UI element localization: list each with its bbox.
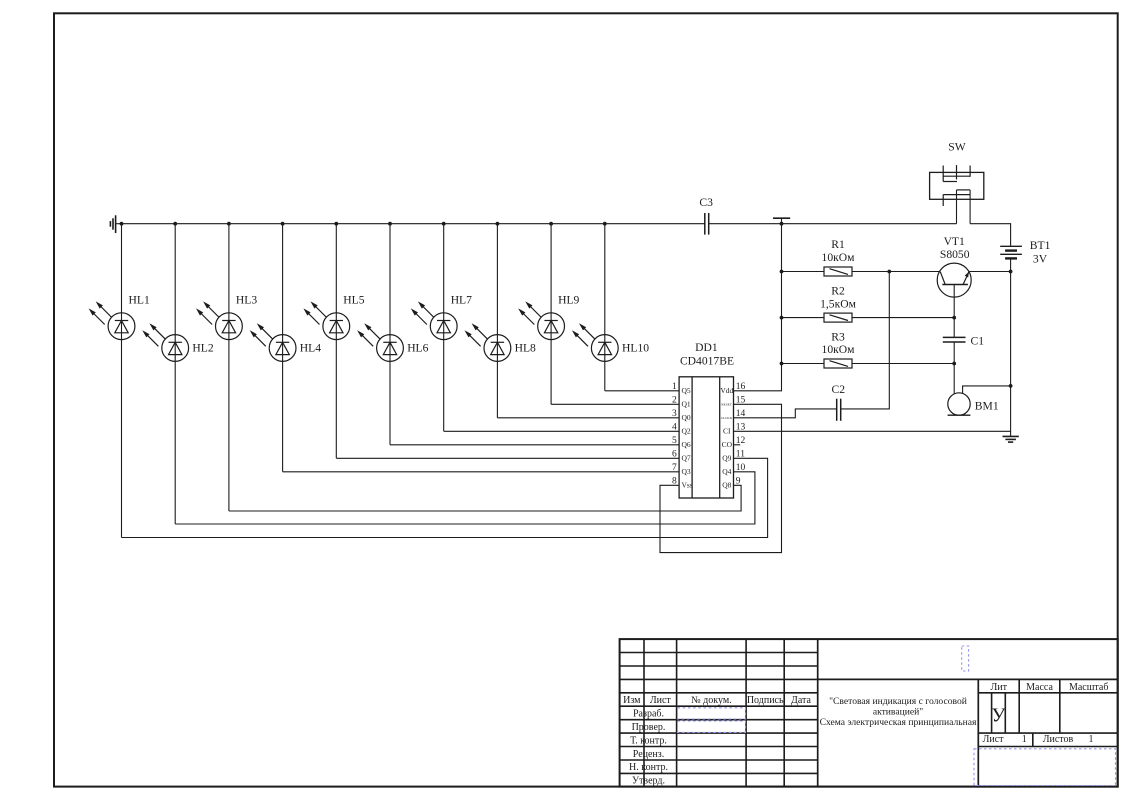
svg-text:HL8: HL8	[515, 342, 536, 355]
svg-text:HL3: HL3	[236, 293, 257, 306]
svg-text:CO: CO	[722, 440, 733, 449]
junction: base node / R2	[952, 316, 956, 320]
wire: Vdd rail to R2	[782, 317, 825, 319]
svg-text:C1: C1	[971, 334, 985, 347]
svg-text:R2: R2	[831, 285, 845, 298]
junction: bus / HL7 column	[442, 222, 446, 226]
svg-text:13: 13	[736, 423, 746, 433]
wire: HL4 column	[282, 224, 284, 472]
capacitor C1	[943, 337, 966, 342]
junction: emitter / right rail	[1009, 270, 1013, 274]
svg-text:Q3: Q3	[682, 467, 691, 476]
svg-text:C2: C2	[832, 383, 846, 396]
placeholder (doc number row 1)	[678, 708, 746, 719]
svg-text:16: 16	[736, 382, 746, 392]
svg-text:№ докум.: № докум.	[691, 695, 732, 706]
svg-text:HL6: HL6	[407, 342, 428, 355]
terminal mark above bus	[773, 218, 790, 224]
LED HL8	[465, 323, 511, 361]
wire: DD1 pin 13 CI to ground rail	[734, 430, 1011, 432]
junction: R1 / C2 branch	[887, 270, 891, 274]
svg-text:8: 8	[672, 477, 677, 487]
resistor R2	[824, 313, 852, 322]
svg-text:Разраб.: Разраб.	[633, 709, 664, 720]
wire: DD1 pin 14 CLOCK to C2	[734, 409, 837, 418]
svg-text:CLOCK: CLOCK	[721, 416, 733, 420]
wire: Vdd rail to R3	[782, 363, 825, 365]
svg-text:SW: SW	[948, 141, 965, 154]
junction: Vdd rail / R2	[780, 316, 784, 320]
svg-text:активацией": активацией"	[873, 707, 923, 718]
junction: Vdd rail / R1	[780, 270, 784, 274]
svg-text:BM1: BM1	[975, 400, 999, 413]
svg-text:1: 1	[1022, 734, 1027, 745]
wire: DD1 pin 8 Vss loop	[660, 404, 782, 552]
junction: bus / HL3 column	[227, 222, 231, 226]
ground (bottom right)	[1003, 436, 1019, 442]
svg-text:DD1: DD1	[695, 341, 718, 354]
svg-text:VT1: VT1	[944, 235, 965, 248]
battery BT1	[1000, 246, 1022, 258]
wire: battery to emitter junction / ground rail	[1010, 258, 1012, 436]
svg-text:Q6: Q6	[682, 440, 691, 449]
placeholder (organization)	[974, 749, 1116, 786]
junction: bus / HL2 column	[173, 222, 177, 226]
junction: bus / HL10 column	[603, 222, 607, 226]
svg-text:Схема электрическая принципиал: Схема электрическая принципиальная	[820, 717, 977, 728]
svg-text:Лист: Лист	[650, 695, 672, 706]
wire: DD1 pin 5 to HL6	[390, 444, 679, 446]
svg-text:Q5: Q5	[682, 386, 691, 395]
junction: bus / HL6 column	[388, 222, 392, 226]
wire: DD1 pin 3 to HL8	[497, 417, 679, 419]
LED HL4	[250, 323, 296, 361]
wire: DD1 pin 10 Q4 to HL2	[175, 472, 755, 524]
svg-text:Реценз.: Реценз.	[633, 749, 664, 760]
placeholder (doc number row 2)	[678, 721, 746, 732]
svg-text:"Световая индикация с голосово: "Световая индикация с голосовой	[829, 696, 967, 707]
wire: HL1 column	[121, 224, 123, 538]
svg-text:Изм: Изм	[623, 695, 641, 706]
svg-text:12: 12	[736, 436, 746, 446]
placeholder (designation)	[962, 646, 969, 671]
svg-text:Листов: Листов	[1043, 734, 1074, 745]
wire: R3 to BM1 node	[852, 363, 954, 365]
resistor R3	[824, 359, 852, 368]
wire: BM1 to right rail	[963, 386, 1011, 394]
svg-text:7: 7	[672, 463, 677, 473]
svg-text:Лист: Лист	[983, 734, 1005, 745]
svg-text:S8050: S8050	[940, 248, 970, 261]
LED HL2	[142, 323, 188, 361]
LED HL10	[572, 323, 618, 361]
svg-text:HL2: HL2	[192, 342, 213, 355]
wire: SW pole A to bus	[956, 190, 958, 224]
wire: DD1 pin 9 Q8 to HL3	[229, 485, 741, 511]
svg-text:Лит: Лит	[990, 682, 1007, 693]
wire: DD1 pin 6 to HL5	[336, 457, 679, 459]
LED HL6	[357, 323, 403, 361]
svg-text:Н. контр.: Н. контр.	[629, 762, 668, 773]
svg-text:CD4017BE: CD4017BE	[680, 355, 734, 368]
svg-text:Q2: Q2	[682, 427, 691, 436]
LED HL3	[196, 301, 242, 339]
svg-text:HL4: HL4	[300, 342, 321, 355]
wire: C1 to BM1	[953, 342, 955, 394]
microphone BM1	[948, 393, 971, 415]
wire: HL7 column	[443, 224, 445, 432]
wire: HL5 column	[335, 224, 337, 459]
junction: bus / HL1 column	[120, 222, 124, 226]
resistor R1	[824, 267, 852, 276]
wire: DD1 pin 11 Q9 to HL1	[122, 458, 768, 537]
svg-text:1: 1	[672, 382, 677, 392]
switch SW	[930, 165, 984, 206]
wire: C2 to R1 node	[841, 272, 890, 409]
svg-text:9: 9	[736, 477, 741, 487]
svg-text:10кОм: 10кОм	[822, 251, 856, 264]
svg-text:Т. контр.: Т. контр.	[630, 735, 667, 746]
stub: DD1 pin 12 CO	[734, 444, 741, 446]
svg-text:10кОм: 10кОм	[822, 343, 856, 356]
svg-text:R1: R1	[831, 238, 845, 251]
svg-text:HL9: HL9	[558, 293, 579, 306]
wire: DD1 pin 16 Vdd to bus	[734, 224, 782, 391]
IC DD1 CD4017BE	[679, 377, 733, 498]
LED HL1	[89, 301, 135, 339]
wire: HL10 column	[604, 224, 606, 391]
transistor VT1 S8050	[937, 263, 971, 337]
LED HL5	[303, 301, 349, 339]
junction: bus / HL9 column	[549, 222, 553, 226]
svg-text:Q8: Q8	[722, 481, 731, 490]
svg-text:Q0: Q0	[682, 413, 691, 422]
svg-text:RESET: RESET	[721, 403, 732, 407]
capacitor C3	[705, 213, 709, 235]
svg-text:CI: CI	[723, 427, 731, 436]
svg-text:Подпись: Подпись	[747, 695, 784, 706]
svg-text:HL5: HL5	[343, 293, 364, 306]
svg-text:Q9: Q9	[722, 454, 731, 463]
svg-text:1,5кОм: 1,5кОм	[820, 297, 856, 310]
junction: bus / HL4 column	[281, 222, 285, 226]
junction: BM1 wire / right rail	[1009, 384, 1013, 388]
svg-text:6: 6	[672, 450, 677, 460]
svg-text:HL7: HL7	[451, 293, 472, 306]
svg-text:HL10: HL10	[622, 342, 649, 355]
wire: DD1 pin 1 to HL10	[605, 390, 679, 392]
junction: Vdd rail / R3	[780, 362, 784, 366]
wire: R1 to VT1 collector	[852, 271, 940, 273]
wire: HL6 column	[389, 224, 391, 445]
wire: HL2 column	[174, 224, 176, 524]
wire: HL8 column	[496, 224, 498, 418]
wire: top bus (SW to battery)	[970, 224, 1011, 247]
wire: +V top bus (left of C3)	[122, 223, 705, 225]
svg-text:BT1: BT1	[1030, 239, 1051, 252]
svg-text:HL1: HL1	[129, 293, 150, 306]
wire: VT1 emitter to battery rail	[969, 271, 1011, 273]
LED HL7	[411, 301, 457, 339]
wire: DD1 pin 7 to HL4	[283, 471, 679, 473]
wire: top bus (C3 to SW)	[709, 223, 957, 225]
svg-text:2: 2	[672, 396, 677, 406]
title block	[620, 639, 1118, 787]
svg-text:Масштаб: Масштаб	[1069, 682, 1109, 693]
svg-text:Q7: Q7	[682, 454, 691, 463]
svg-text:Q4: Q4	[722, 467, 731, 476]
svg-text:У: У	[991, 705, 1006, 727]
svg-text:15: 15	[736, 396, 746, 406]
svg-text:R3: R3	[831, 331, 845, 344]
svg-text:10: 10	[736, 463, 746, 473]
wire: DD1 pin 4 to HL7	[444, 430, 679, 432]
svg-text:Vss: Vss	[682, 481, 693, 490]
svg-text:3V: 3V	[1033, 253, 1048, 266]
junction: BM1 node / R3	[952, 362, 956, 366]
svg-text:Vdd: Vdd	[720, 386, 733, 395]
svg-text:Провер.: Провер.	[632, 722, 666, 733]
junction: bus / HL8 column	[496, 222, 500, 226]
svg-text:Дата: Дата	[791, 695, 811, 706]
wire: R2 to VT1 base node	[852, 317, 954, 319]
svg-text:14: 14	[736, 409, 746, 419]
svg-text:11: 11	[736, 450, 745, 460]
capacitor C2	[837, 399, 841, 421]
svg-text:1: 1	[1089, 734, 1094, 745]
wire: SW pole B to bus	[969, 190, 971, 224]
svg-text:Масса: Масса	[1026, 682, 1053, 693]
junction: bus / HL5 column	[334, 222, 338, 226]
svg-text:C3: C3	[699, 196, 713, 209]
junction: Vdd vertical / bus	[780, 222, 784, 226]
svg-text:Утверд.: Утверд.	[632, 776, 665, 787]
ground (left, top bus)	[110, 215, 121, 233]
svg-text:5: 5	[672, 436, 677, 446]
LED HL9	[518, 301, 564, 339]
svg-text:4: 4	[672, 423, 677, 433]
wire: DD1 pin 2 to HL9	[551, 403, 679, 405]
svg-text:Q1: Q1	[682, 400, 691, 409]
wire: Vdd rail to R1	[782, 271, 825, 273]
svg-text:3: 3	[672, 409, 677, 419]
wire: HL3 column	[228, 224, 230, 511]
wire: HL9 column	[550, 224, 552, 405]
